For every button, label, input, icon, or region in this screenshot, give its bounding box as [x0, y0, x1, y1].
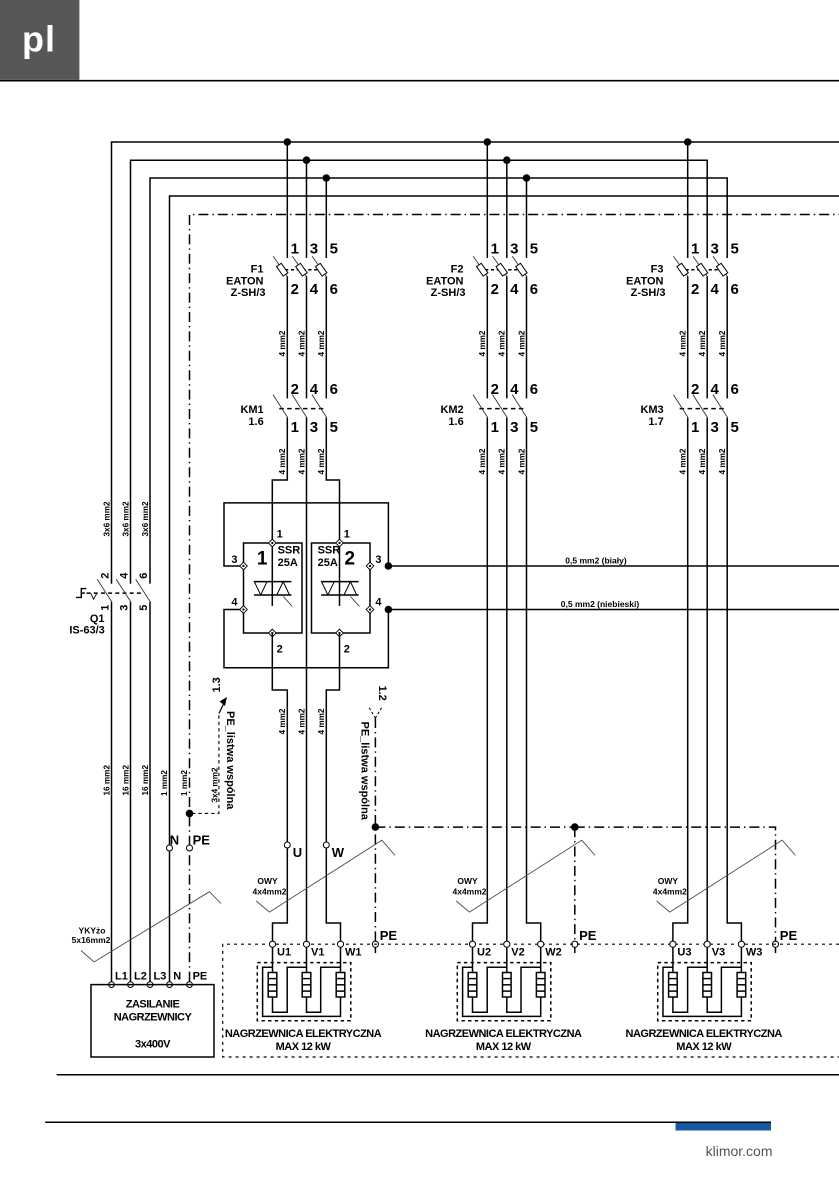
svg-text:U: U: [293, 845, 302, 860]
supply terminal circle (x=130.5): [128, 982, 134, 988]
svg-text:4 mm2: 4 mm2: [297, 448, 306, 474]
wire drop to fuse F1 pole 3: [325, 178, 327, 258]
svg-text:Z-SH/3: Z-SH/3: [231, 287, 266, 299]
supply terminal circle (x=169.5): [167, 982, 173, 988]
wire drop to fuse F3 pole 1: [687, 142, 689, 258]
PE terminal (x=776): [775, 947, 777, 953]
fuse F3 EATON Z-SH/3: [626, 241, 739, 300]
svg-text:Q1: Q1: [90, 613, 105, 625]
cable OWY 4x4mm2 marker (heater 3): [657, 840, 796, 912]
PE terminal (x=575): [574, 947, 576, 953]
fuse F1 pole 3 body: [315, 263, 326, 276]
svg-text:6: 6: [138, 573, 150, 579]
svg-text:OWY: OWY: [658, 876, 679, 886]
svg-text:3: 3: [510, 419, 518, 436]
svg-text:EATON: EATON: [426, 275, 464, 287]
svg-text:W1: W1: [345, 947, 362, 959]
svg-text:MAX 12 kW: MAX 12 kW: [276, 1041, 332, 1053]
footer rule 1: [57, 1074, 839, 1076]
svg-text:F1: F1: [251, 264, 264, 276]
connector circle N: [167, 845, 173, 851]
svg-text:1: 1: [100, 605, 112, 611]
svg-text:1: 1: [291, 241, 299, 258]
wire fuse F2 to KM2 (4 mm2): [526, 277, 528, 399]
junction dot L1/F2: [484, 138, 492, 146]
svg-text:6: 6: [330, 281, 338, 298]
junction dot PE branch: [186, 810, 194, 818]
svg-text:5: 5: [731, 241, 739, 258]
svg-text:1: 1: [691, 241, 699, 258]
svg-text:U1: U1: [277, 947, 291, 959]
heating element (x=741): [740, 947, 742, 972]
contactor KM1: [240, 381, 337, 436]
wire drop to fuse F2 pole 2: [506, 160, 508, 258]
svg-text:F2: F2: [451, 264, 464, 276]
svg-text:3: 3: [711, 419, 719, 436]
svg-text:EATON: EATON: [626, 275, 664, 287]
svg-text:W3: W3: [746, 947, 763, 959]
heater 3 element enclosure (dashed): [658, 963, 752, 1021]
junction dot PE heater1: [372, 823, 380, 831]
svg-text:1.3: 1.3: [211, 677, 223, 692]
svg-text:1.7: 1.7: [648, 416, 663, 428]
svg-text:4 mm2: 4 mm2: [517, 448, 526, 474]
terminal W3: [738, 941, 744, 947]
svg-text:1 mm2: 1 mm2: [180, 770, 189, 796]
wire fuse F2 to KM2 (4 mm2): [506, 277, 508, 399]
wire drop to fuse F2 pole 1: [486, 142, 488, 258]
wire bus L1: [112, 142, 839, 584]
svg-text:KM2: KM2: [440, 404, 463, 416]
svg-text:4 mm2: 4 mm2: [317, 448, 326, 474]
reference arrow 1.3: [219, 699, 226, 714]
contactor KM2 linkage (dashed): [479, 408, 525, 410]
svg-text:1: 1: [291, 419, 299, 436]
fuse F2 EATON Z-SH/3: [426, 241, 538, 300]
svg-text:SSR: SSR: [278, 545, 301, 557]
svg-text:1 mm2: 1 mm2: [160, 770, 169, 796]
terminal W2: [538, 941, 544, 947]
svg-text:1: 1: [491, 419, 499, 436]
SSR1 pin 2: [268, 629, 276, 637]
svg-text:2: 2: [291, 281, 299, 298]
svg-text:5x16mm2: 5x16mm2: [72, 935, 111, 945]
fuse F1 pole 2 blade: [292, 256, 307, 277]
Q1 pole 3 blade: [136, 579, 151, 602]
svg-text:4 mm2: 4 mm2: [679, 448, 688, 474]
reference marker 1.2 (dashed fork): [369, 708, 381, 718]
terminal V2: [504, 941, 510, 947]
SSR2 pin 3: [366, 562, 374, 570]
heating element (x=272): [272, 947, 274, 972]
svg-text:SSR: SSR: [318, 545, 341, 557]
svg-text:4: 4: [510, 281, 519, 298]
svg-text:4 mm2: 4 mm2: [517, 330, 526, 356]
junction dot L1/F1: [284, 138, 292, 146]
svg-text:6: 6: [530, 381, 538, 398]
terminal V3: [704, 941, 710, 947]
svg-text:4x4mm2: 4x4mm2: [252, 887, 286, 897]
junction dot L2/F1: [303, 156, 311, 164]
svg-text:5: 5: [731, 419, 739, 436]
wire fuse F3 to KM3 (4 mm2): [726, 277, 728, 399]
Q1 pole 2 blade: [116, 579, 131, 602]
svg-text:4 mm2: 4 mm2: [679, 330, 688, 356]
svg-text:NAGRZEWNICY: NAGRZEWNICY: [114, 1012, 193, 1024]
svg-text:ZASILANIE: ZASILANIE: [126, 999, 180, 1011]
svg-text:1: 1: [277, 529, 283, 541]
heater 3 internal wiring (delta): [673, 967, 707, 1012]
cable YKYzo 5x16mm2 marker: [81, 892, 221, 962]
fuse F1 pole 3 blade: [312, 256, 327, 277]
svg-text:5: 5: [530, 419, 538, 436]
fuse F2 pole 1 body: [476, 263, 487, 276]
fuse F3 pole 1 body: [677, 263, 688, 276]
svg-text:2: 2: [291, 381, 299, 398]
SSR1 pin 3: [240, 562, 248, 570]
supply terminal circle (x=111.5): [109, 982, 115, 988]
svg-text:4: 4: [119, 572, 131, 579]
heater 1 feed wires (jog to terminals): [273, 848, 288, 941]
solid state relay SSR2 25A: [312, 529, 383, 656]
svg-text:5: 5: [330, 419, 338, 436]
fuse F3 pole 2 body: [696, 263, 707, 276]
svg-text:0,5 mm2 (biały): 0,5 mm2 (biały): [565, 556, 627, 566]
svg-text:2: 2: [344, 644, 350, 656]
svg-text:4: 4: [711, 381, 720, 398]
contactor KM1 pole 3 blade: [312, 395, 327, 418]
svg-text:1.2: 1.2: [376, 686, 388, 701]
svg-text:U2: U2: [477, 947, 491, 959]
svg-text:4 mm2: 4 mm2: [698, 448, 707, 474]
svg-text:PE: PE: [380, 928, 398, 943]
svg-text:16 mm2: 16 mm2: [141, 765, 150, 796]
cable OWY 4x4mm2 marker (heater 1): [256, 840, 395, 912]
wire L2 Q1 to supply box: [130, 602, 132, 982]
wire fuse F1 to KM1 (4 mm2): [286, 277, 288, 399]
terminal U3: [670, 941, 676, 947]
svg-text:1.6: 1.6: [248, 416, 263, 428]
svg-text:MAX 12 kW: MAX 12 kW: [476, 1041, 532, 1053]
svg-text:0,5 mm2 (niebieski): 0,5 mm2 (niebieski): [561, 599, 640, 609]
contactor KM1 linkage (dashed): [279, 408, 325, 410]
junction dot L3/F2: [523, 174, 531, 182]
supply terminal circle (x=189.5): [187, 982, 193, 988]
PE branch to reference 1.3 (dashed): [192, 713, 219, 813]
svg-text:PE: PE: [780, 928, 798, 943]
connector circle PE: [187, 845, 193, 851]
header rule: [0, 80, 839, 82]
contactor KM1 pole 1 blade: [273, 395, 288, 418]
svg-text:4: 4: [231, 597, 238, 609]
wire fuse F1 to KM1 (4 mm2): [325, 277, 327, 399]
svg-text:L2: L2: [134, 971, 147, 983]
contactor KM2 pole 3 blade: [512, 395, 527, 418]
supply box ZASILANIE NAGRZEWNICY: [91, 985, 214, 1057]
wire fuse F2 to KM2 (4 mm2): [486, 277, 488, 399]
SSR2 pin 2: [336, 629, 344, 637]
svg-text:EATON: EATON: [226, 275, 264, 287]
heating element (x=340): [340, 947, 342, 972]
svg-text:2: 2: [277, 644, 283, 656]
svg-text:6: 6: [330, 381, 338, 398]
fuse F2 pole 3 body: [516, 263, 527, 276]
terminal V1: [303, 941, 309, 947]
contactor KM3 pole 2 blade: [693, 395, 708, 418]
fuse F2 pole 3 blade: [512, 256, 527, 277]
svg-text:PE: PE: [193, 833, 211, 848]
svg-text:V3: V3: [712, 947, 725, 959]
wire fuse F3 to KM3 (4 mm2): [706, 277, 708, 399]
svg-text:25A: 25A: [278, 557, 298, 569]
heater 1 internal wiring (delta): [273, 967, 307, 1012]
wire bus L3: [150, 178, 727, 584]
svg-text:5: 5: [530, 241, 538, 258]
svg-text:3x4 mm2: 3x4 mm2: [211, 767, 220, 802]
SSR2 gate lead: [351, 597, 360, 607]
SSR2 triac symbol: [339, 545, 341, 606]
svg-text:4x4mm2: 4x4mm2: [452, 887, 486, 897]
junction dot L2/F2: [503, 156, 511, 164]
svg-text:3x6 mm2: 3x6 mm2: [141, 501, 150, 536]
wire L1 Q1 to supply box: [111, 602, 113, 982]
heating element (x=472): [472, 947, 474, 972]
svg-text:6: 6: [731, 381, 739, 398]
svg-text:U3: U3: [677, 947, 691, 959]
svg-text:6: 6: [530, 281, 538, 298]
svg-text:1: 1: [491, 241, 499, 258]
SSR2 pin 4: [366, 606, 374, 614]
svg-text:3x6 mm2: 3x6 mm2: [103, 501, 112, 536]
svg-text:PE: PE: [579, 928, 597, 943]
heating element (x=707): [706, 947, 708, 972]
SSR1 pin 4: [240, 606, 248, 614]
fuse F3 pole 3 blade: [713, 256, 728, 277]
contactor KM3 pole 3 blade: [713, 395, 728, 418]
contactor KM1 pole 2 blade: [292, 395, 307, 418]
svg-text:4: 4: [310, 381, 319, 398]
terminal U1: [269, 941, 275, 947]
wire drop to fuse F2 pole 3: [526, 178, 528, 258]
header language tab "pl": [0, 0, 79, 80]
svg-text:16 mm2: 16 mm2: [103, 765, 112, 796]
svg-text:3: 3: [510, 241, 518, 258]
svg-text:F3: F3: [651, 264, 664, 276]
contactor KM3 linkage (dashed): [680, 408, 727, 410]
svg-text:2: 2: [100, 573, 112, 579]
SSR1 gate lead: [283, 597, 292, 607]
svg-text:1.6: 1.6: [448, 416, 463, 428]
svg-text:4 mm2: 4 mm2: [498, 448, 507, 474]
SSR output line 0,5 mm2 (niebieski): [388, 609, 839, 611]
svg-text:4x4mm2: 4x4mm2: [653, 887, 687, 897]
svg-text:Z-SH/3: Z-SH/3: [431, 287, 466, 299]
svg-text:4: 4: [375, 597, 382, 609]
fuse F2 linkage (dashed): [479, 269, 525, 271]
svg-text:PE_listwa wspólna: PE_listwa wspólna: [224, 711, 236, 810]
wire bus N: [170, 196, 839, 982]
wire SSR2 pin2 to heater W (4 mm2): [326, 633, 339, 848]
wire drop to fuse F1 pole 2: [306, 160, 308, 258]
svg-text:1: 1: [257, 549, 268, 570]
SSR parallel control loop wires: [224, 503, 388, 566]
svg-text:1: 1: [344, 529, 350, 541]
svg-text:OWY: OWY: [257, 876, 278, 886]
svg-text:W: W: [332, 845, 345, 860]
svg-text:4 mm2: 4 mm2: [278, 448, 287, 474]
wire fuse F3 to KM3 (4 mm2): [687, 277, 689, 399]
svg-text:4 mm2: 4 mm2: [278, 708, 287, 734]
fuse F2 pole 1 blade: [473, 256, 488, 277]
svg-text:klimor.com: klimor.com: [706, 1143, 773, 1159]
svg-text:3: 3: [310, 419, 318, 436]
fuse F2 pole 2 blade: [493, 256, 508, 277]
fuse F1 pole 1 body: [276, 263, 287, 276]
svg-text:16 mm2: 16 mm2: [122, 765, 131, 796]
heater zone dashed box / terminal strip: [223, 944, 839, 1057]
heater 1 element enclosure (dashed): [257, 963, 351, 1021]
svg-text:4 mm2: 4 mm2: [317, 708, 326, 734]
svg-text:3x6 mm2: 3x6 mm2: [122, 501, 131, 536]
svg-text:2: 2: [345, 549, 356, 570]
svg-text:NAGRZEWNICA ELEKTRYCZNA: NAGRZEWNICA ELEKTRYCZNA: [225, 1028, 382, 1040]
svg-text:3: 3: [119, 605, 131, 611]
svg-text:KM3: KM3: [640, 404, 663, 416]
svg-text:L3: L3: [154, 971, 167, 983]
heater 2 internal wiring (delta): [473, 967, 507, 1012]
contactor KM2 pole 2 blade: [493, 395, 508, 418]
svg-text:OWY: OWY: [457, 876, 478, 886]
svg-text:4 mm2: 4 mm2: [317, 330, 326, 356]
wire bus L2: [131, 160, 708, 584]
fuse F3 pole 2 blade: [693, 256, 708, 277]
svg-text:25A: 25A: [318, 557, 338, 569]
svg-text:4 mm2: 4 mm2: [297, 708, 306, 734]
PE terminal (x=375): [374, 947, 376, 953]
heating element (x=507): [506, 947, 508, 972]
fuse F3 pole 3 body: [716, 263, 727, 276]
svg-text:N: N: [173, 971, 181, 983]
svg-text:5: 5: [138, 605, 150, 611]
svg-text:IS-63/3: IS-63/3: [69, 624, 104, 636]
svg-text:2: 2: [491, 381, 499, 398]
svg-text:4 mm2: 4 mm2: [698, 330, 707, 356]
svg-text:4 mm2: 4 mm2: [718, 330, 727, 356]
fuse F1 pole 2 body: [296, 263, 307, 276]
connector circle U: [284, 842, 290, 848]
svg-text:3x400V: 3x400V: [135, 1039, 171, 1051]
svg-text:W2: W2: [545, 947, 562, 959]
svg-text:3: 3: [375, 554, 381, 566]
fuse F3 pole 1 blade: [674, 256, 689, 277]
junction dot SSR output 3: [385, 562, 393, 570]
svg-text:4: 4: [510, 381, 519, 398]
SSR2 pin 1: [336, 539, 344, 547]
junction dot SSR output 4: [385, 606, 393, 614]
solid state relay SSR1 25A: [231, 529, 302, 656]
svg-text:PE_listwa wspólna: PE_listwa wspólna: [359, 722, 371, 821]
svg-text:NAGRZEWNICA ELEKTRYCZNA: NAGRZEWNICA ELEKTRYCZNA: [626, 1028, 783, 1040]
svg-text:NAGRZEWNICA ELEKTRYCZNA: NAGRZEWNICA ELEKTRYCZNA: [425, 1028, 582, 1040]
svg-text:6: 6: [731, 281, 739, 298]
svg-text:4 mm2: 4 mm2: [278, 330, 287, 356]
heater 2 element enclosure (dashed): [457, 963, 551, 1021]
wire SSR1 pin2 to heater U (4 mm2): [272, 633, 287, 848]
svg-text:4 mm2: 4 mm2: [297, 330, 306, 356]
SSR output line 0,5 mm2 (bialy): [388, 565, 839, 567]
terminal U2: [469, 941, 475, 947]
svg-text:4 mm2: 4 mm2: [478, 448, 487, 474]
svg-text:3: 3: [231, 554, 237, 566]
svg-text:4 mm2: 4 mm2: [498, 330, 507, 356]
klimor blue bar: [676, 1123, 772, 1131]
wire KM1 out to SSR jogs (4 mm2): [272, 418, 287, 543]
main switch Q1 IS-63/3: [69, 572, 150, 637]
svg-text:2: 2: [491, 281, 499, 298]
svg-text:4 mm2: 4 mm2: [718, 448, 727, 474]
contactor KM3: [640, 381, 738, 436]
supply terminal circle (x=150): [147, 982, 153, 988]
fuse F3 linkage (dashed): [680, 269, 727, 271]
junction dot PE heater2: [571, 823, 579, 831]
svg-text:YKYżo: YKYżo: [79, 926, 106, 936]
wire drop to fuse F1 pole 1: [286, 142, 288, 258]
contactor KM2: [440, 381, 538, 436]
Q1 linkage (dashed): [87, 592, 145, 594]
svg-text:3: 3: [711, 241, 719, 258]
heater 2 feed wires (jog to terminals): [473, 418, 488, 942]
svg-text:L1: L1: [115, 971, 128, 983]
svg-text:N: N: [170, 833, 179, 848]
Q1 manual actuator: [76, 589, 86, 598]
cable OWY 4x4mm2 marker (heater 2): [456, 840, 595, 912]
svg-text:Z-SH/3: Z-SH/3: [631, 287, 666, 299]
junction dot L1/F3: [684, 138, 692, 146]
svg-text:4: 4: [711, 281, 720, 298]
footer rule 2: [45, 1121, 771, 1123]
svg-text:KM1: KM1: [240, 404, 263, 416]
svg-text:PE: PE: [193, 971, 208, 983]
contactor KM3 pole 1 blade: [673, 395, 688, 418]
svg-text:MAX 12 kW: MAX 12 kW: [676, 1041, 732, 1053]
wire PE distribution (dash-dot): [375, 718, 775, 941]
svg-text:3: 3: [310, 241, 318, 258]
contactor KM2 pole 1 blade: [473, 395, 488, 418]
wire fuse F1 to KM1 (4 mm2): [306, 277, 308, 399]
heating element (x=673): [672, 947, 674, 972]
svg-text:4 mm2: 4 mm2: [478, 330, 487, 356]
wire bus PE (dash-dot): [190, 215, 839, 982]
wire L3 Q1 to supply box: [149, 602, 151, 982]
svg-text:V2: V2: [511, 947, 524, 959]
SSR1 pin 1: [268, 539, 276, 547]
heating element (x=306): [306, 947, 308, 972]
fuse F2 pole 2 body: [496, 263, 507, 276]
svg-text:V1: V1: [311, 947, 324, 959]
svg-text:2: 2: [691, 281, 699, 298]
fuse F1 pole 1 blade: [273, 256, 288, 277]
SSR1 triac symbol: [271, 545, 273, 606]
fuse F1 linkage (dashed): [279, 269, 325, 271]
svg-text:5: 5: [330, 241, 338, 258]
heating element (x=541): [540, 947, 542, 972]
heater 3 feed wires (jog to terminals): [673, 418, 688, 942]
terminal W1: [337, 941, 343, 947]
connector circle W: [323, 842, 329, 848]
svg-text:2: 2: [691, 381, 699, 398]
junction dot L3/F1: [323, 174, 331, 182]
svg-text:1: 1: [691, 419, 699, 436]
